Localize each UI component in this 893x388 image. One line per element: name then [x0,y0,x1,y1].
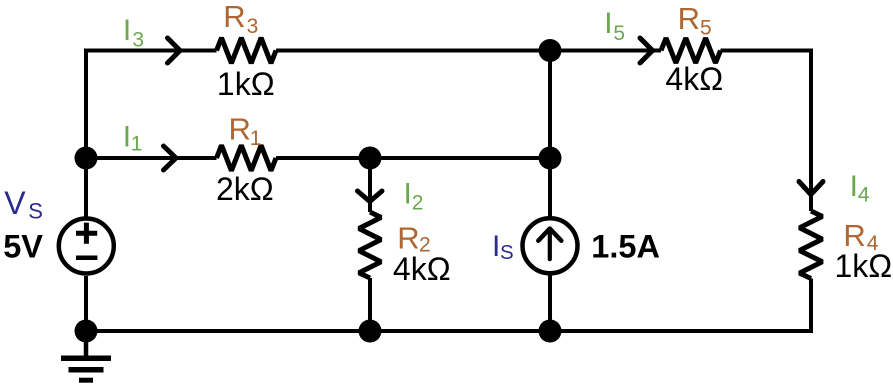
node dot at left middle [75,147,98,170]
wire: top middle segment R3 to R5 [276,49,661,53]
svg-text:1: 1 [250,127,262,150]
wire: IS column lower [548,274,552,331]
svg-text:5V: 5V [3,229,43,265]
svg-text:3: 3 [132,28,144,51]
wire: VS stub to ground [84,331,89,356]
svg-text:1kΩ: 1kΩ [217,66,275,102]
node dot at IS top [539,147,562,170]
svg-text:I: I [604,7,612,40]
node dot at top center [539,39,562,62]
wire: left vertical + top-left segment to R3 [86,51,217,217]
ground [61,358,111,380]
svg-text:2: 2 [412,191,424,214]
svg-text:1: 1 [131,133,143,156]
svg-text:4kΩ: 4kΩ [393,251,451,287]
svg-text:2kΩ: 2kΩ [216,171,274,207]
svg-text:3: 3 [247,15,259,38]
svg-text:R: R [229,112,251,147]
arrow I4 [799,182,823,195]
wire: top-right corner down to R4 [721,51,812,212]
arrow I5 [640,38,653,63]
resistor R2 [359,212,381,278]
svg-text:S: S [500,241,514,264]
node dot at R2 bottom [359,320,382,343]
resistor R5 [661,38,721,63]
wire: right column bottom + bottom wire [86,276,811,331]
svg-text:I: I [850,170,858,203]
arrow I2 [358,191,383,202]
svg-text:S: S [28,198,43,223]
wire: IS column upper [548,51,552,218]
resistor R1 [217,145,277,170]
node dot at R2 top [359,147,382,170]
resistor R3 [217,38,277,63]
svg-text:V: V [4,185,26,221]
svg-text:1.5A: 1.5A [591,228,660,264]
wire: R2 column lower [368,278,372,331]
arrow I1 [164,146,177,170]
svg-text:I: I [123,14,131,47]
node dot at left bottom [75,320,98,343]
wire: middle row left segment [86,156,217,160]
svg-text:5: 5 [613,22,625,45]
svg-text:4kΩ: 4kΩ [665,61,723,97]
current source U IS [523,218,578,273]
voltage source U VS [59,219,114,274]
svg-text:5: 5 [700,17,712,40]
svg-text:R: R [678,1,700,36]
svg-text:1kΩ: 1kΩ [835,248,893,284]
svg-text:R: R [223,0,245,34]
svg-text:4: 4 [858,183,870,206]
svg-text:I: I [404,178,412,211]
wire: middle row right segment to IS column [276,156,550,160]
wire: R2 column upper [368,158,372,212]
arrow I3 [168,38,181,63]
resistor R4 [800,211,823,279]
node dot at IS bottom [539,320,562,343]
